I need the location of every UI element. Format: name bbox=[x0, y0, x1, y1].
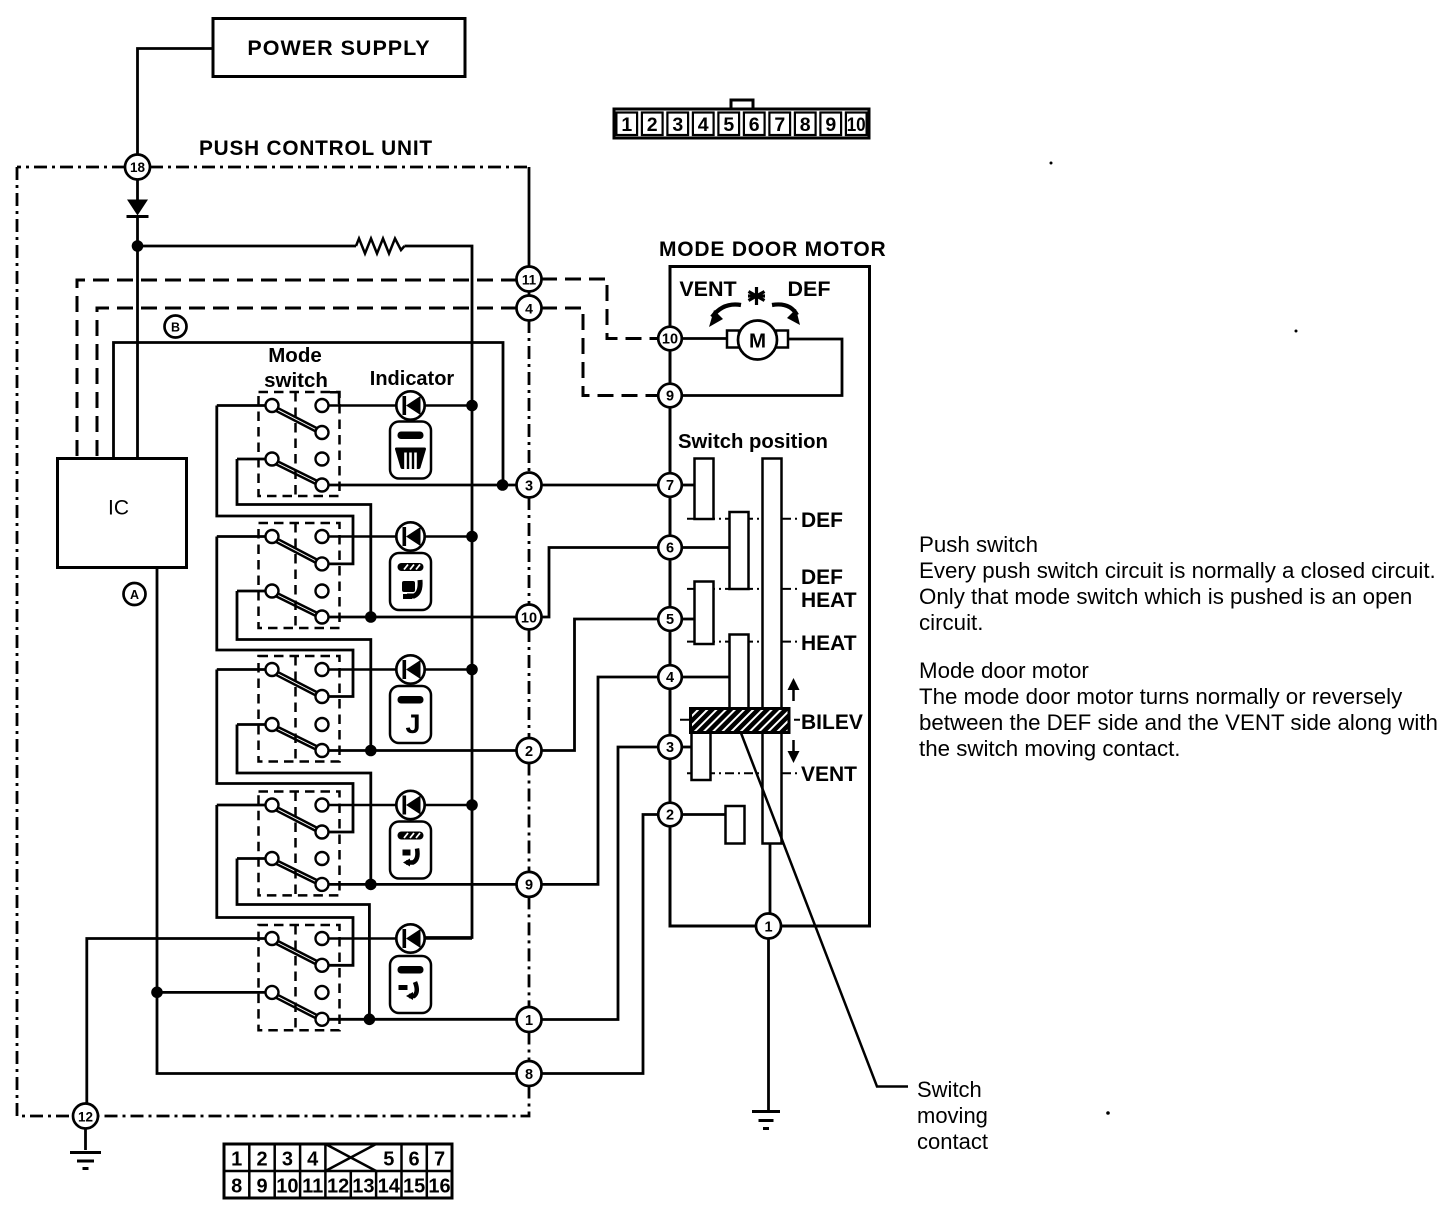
speck bbox=[1106, 1111, 1110, 1115]
svg-text:4: 4 bbox=[307, 1149, 319, 1171]
svg-text:DEF: DEF bbox=[788, 277, 831, 301]
wire: S4 output to connector bbox=[329, 883, 518, 886]
wire: pin1 to motor pin3 bbox=[541, 747, 658, 1020]
svg-text:Switch: Switch bbox=[917, 1077, 982, 1102]
svg-text:MODE DOOR MOTOR: MODE DOOR MOTOR bbox=[659, 238, 886, 261]
svg-text:1: 1 bbox=[621, 114, 632, 136]
resistor R1 bbox=[356, 239, 405, 254]
contact bar pin6 bbox=[730, 512, 749, 589]
wire: S2 lower pole left lead bbox=[237, 590, 266, 593]
svg-text:6: 6 bbox=[409, 1149, 420, 1171]
svg-text:Indicator: Indicator bbox=[370, 368, 455, 390]
wire: S3 fixed contact to LED3 bbox=[329, 668, 397, 671]
S4 lower pole contacts and arm bbox=[266, 852, 329, 891]
motor pin 7 bbox=[658, 473, 682, 497]
svg-text:A: A bbox=[130, 588, 139, 602]
svg-text:IC: IC bbox=[108, 497, 129, 520]
wire: LED5 to supply rail bbox=[425, 937, 472, 940]
wire: S5 lower left lead to IC net bbox=[157, 991, 237, 994]
wire: pin10 to motor bbox=[682, 337, 728, 340]
svg-text:PUSH CONTROL UNIT: PUSH CONTROL UNIT bbox=[199, 137, 433, 160]
connector pin 4 bbox=[517, 296, 542, 321]
S2 inner divider bbox=[294, 523, 297, 628]
mode switch S4 (BILEV) dashed enclosure bbox=[259, 792, 340, 896]
wire: power supply to pin 18 bbox=[138, 49, 214, 156]
svg-text:1: 1 bbox=[764, 920, 772, 936]
svg-text:9: 9 bbox=[256, 1176, 267, 1198]
svg-text:16: 16 bbox=[428, 1176, 450, 1198]
svg-text:HEAT: HEAT bbox=[801, 589, 857, 612]
junction: chain tap on pin wire bbox=[364, 1014, 376, 1026]
motor pin 9 bbox=[658, 384, 682, 408]
speck bbox=[1050, 162, 1053, 165]
svg-text:18: 18 bbox=[130, 160, 146, 175]
position marker VENT bbox=[687, 772, 800, 774]
svg-text:4: 4 bbox=[666, 670, 674, 686]
svg-text:6: 6 bbox=[749, 114, 760, 136]
LED D5 (indicator lamp) bbox=[396, 924, 424, 952]
svg-text:7: 7 bbox=[666, 478, 674, 494]
indicator icon frame 5 bbox=[390, 956, 431, 1013]
bilev glyph bbox=[403, 849, 418, 867]
indicator icon frame 2 bbox=[390, 553, 431, 610]
connector pin 2 bbox=[517, 738, 542, 763]
moving contact rail bbox=[763, 459, 782, 844]
arrow arc left (to VENT) bbox=[709, 305, 741, 328]
wire: dash-dot from pin 18 to left edge bbox=[17, 166, 125, 169]
LED D2 (indicator lamp) bbox=[396, 522, 424, 550]
svg-text:3: 3 bbox=[666, 740, 674, 756]
svg-text:4: 4 bbox=[698, 114, 709, 136]
wire: S3 upper pole left lead bbox=[217, 668, 266, 671]
svg-text:15: 15 bbox=[403, 1176, 425, 1198]
svg-text:3: 3 bbox=[525, 478, 533, 494]
svg-text:5: 5 bbox=[383, 1149, 394, 1171]
mode door motor enclosure bbox=[670, 267, 870, 927]
svg-text:5: 5 bbox=[723, 114, 734, 136]
wire: IC output to pin3 net (top route) bbox=[114, 343, 504, 486]
svg-text:POWER SUPPLY: POWER SUPPLY bbox=[247, 36, 430, 60]
connector pin 12 bbox=[73, 1104, 98, 1129]
wire: indicator chain S1 to S2 arm bbox=[217, 406, 353, 564]
IC U1 bbox=[58, 459, 187, 568]
connector pin 10 bbox=[517, 605, 542, 630]
wire stubs motor pins to contact bars bbox=[682, 484, 696, 487]
junction: pin3 net / IC route bbox=[497, 479, 509, 491]
vent glyph bbox=[399, 982, 417, 1000]
wire: switch chain S2 to S3 output node bbox=[237, 591, 371, 751]
wire: dashed net pin11 to IC bbox=[77, 280, 517, 459]
wire: S3 lower pole left lead bbox=[237, 723, 266, 726]
indicator icon frame 4 bbox=[390, 822, 431, 879]
svg-text:The mode door motor turns norm: The mode door motor turns normally or re… bbox=[919, 684, 1403, 709]
svg-text:VENT: VENT bbox=[679, 277, 736, 301]
wire: pin 11 to pin 4 stub bbox=[528, 291, 531, 296]
star symbol bbox=[748, 287, 765, 305]
wire: dashed net pin4 to IC bbox=[97, 308, 517, 459]
dashed wire pin4 to pin9 bbox=[541, 308, 658, 396]
wire: S1 lower pole left lead bbox=[237, 458, 266, 461]
connector block (16-pin) bbox=[224, 1144, 452, 1198]
indicator bar 1 bbox=[398, 432, 424, 440]
wire: LED3 to supply rail bbox=[425, 668, 472, 671]
wire: rail to pin1 bbox=[769, 844, 772, 915]
svg-text:2: 2 bbox=[647, 114, 658, 136]
wire: IC to pin 8 bbox=[157, 568, 517, 1074]
wire: S3 output to connector bbox=[329, 749, 518, 752]
arrow down bbox=[788, 740, 800, 763]
svg-text:8: 8 bbox=[231, 1176, 242, 1198]
junction: chain tap on pin wire bbox=[365, 745, 377, 757]
wire: LED4 to supply rail bbox=[425, 804, 472, 807]
svg-text:8: 8 bbox=[800, 114, 811, 136]
wire: LED1 to supply rail bbox=[425, 404, 472, 407]
LED D1 (indicator lamp) bbox=[396, 391, 424, 419]
junction: diode output node bbox=[132, 240, 144, 252]
wire: switch chain S4 to S5 output node bbox=[237, 859, 369, 1020]
svg-text:3: 3 bbox=[282, 1149, 293, 1171]
wire: S1 fixed contact to LED1 bbox=[329, 404, 397, 407]
mode switch S2 (DEF-HEAT) dashed enclosure bbox=[259, 523, 340, 628]
arrow up bbox=[788, 678, 800, 701]
connector pin 18 bbox=[125, 155, 150, 180]
connector pin 1 bbox=[517, 1007, 542, 1032]
ground (left) bbox=[70, 1153, 101, 1169]
S1 upper pole contacts and arm bbox=[266, 399, 329, 439]
wire: S1 output to connector bbox=[329, 484, 518, 487]
svg-text:DEF: DEF bbox=[801, 509, 843, 532]
S1 inner divider bbox=[294, 392, 297, 496]
junction: chain tap on pin wire bbox=[365, 879, 377, 891]
svg-text:Every push switch circuit is n: Every push switch circuit is normally a … bbox=[919, 558, 1436, 583]
svg-text:Only that mode switch which is: Only that mode switch which is pushed is… bbox=[919, 584, 1412, 609]
svg-text:contact: contact bbox=[917, 1129, 988, 1154]
arrow arc right (to DEF) bbox=[772, 304, 800, 325]
svg-text:Mode: Mode bbox=[268, 344, 322, 367]
wire: dash-dot from pin 18 right to bus top bbox=[150, 166, 529, 169]
wire: node to resistor bbox=[138, 245, 357, 248]
wire: pin8 to motor pin2 bbox=[541, 815, 658, 1074]
svg-text:14: 14 bbox=[378, 1176, 401, 1198]
wire: S2 output to connector bbox=[329, 616, 518, 619]
svg-text:10: 10 bbox=[521, 610, 537, 626]
motor M bbox=[738, 321, 777, 360]
svg-text:13: 13 bbox=[352, 1176, 374, 1198]
wire: S5 output to connector bbox=[329, 1018, 518, 1021]
svg-text:9: 9 bbox=[666, 389, 674, 405]
contact bar pin3 bbox=[692, 732, 711, 781]
position marker DEF-HEAT bbox=[687, 588, 800, 590]
svg-text:J: J bbox=[405, 709, 420, 739]
svg-text:1: 1 bbox=[525, 1013, 533, 1029]
note: push switch bbox=[919, 532, 1438, 761]
svg-text:3: 3 bbox=[672, 114, 683, 136]
svg-text:switch: switch bbox=[264, 369, 328, 392]
S1 lower pole contacts and arm bbox=[266, 453, 329, 492]
indicator striped bar 4 bbox=[398, 832, 424, 840]
svg-text:1: 1 bbox=[231, 1149, 242, 1171]
junction: chain tap on pin wire bbox=[365, 611, 377, 623]
wire: S5 lower pole left lead bbox=[237, 991, 266, 994]
junction: mode switch 5 common node bbox=[151, 987, 163, 999]
position marker BILEV bbox=[680, 719, 800, 721]
svg-text:Switch position: Switch position bbox=[678, 431, 828, 453]
ground (motor) bbox=[752, 1112, 780, 1129]
motor pin 10 bbox=[658, 327, 682, 351]
wire: pin 12 to ground bbox=[84, 1129, 87, 1151]
wire: pin2 to motor pin5 bbox=[541, 619, 658, 751]
wire: switch chain S3 to S4 output node bbox=[237, 725, 371, 885]
junction: LED3 rail tap bbox=[466, 664, 478, 676]
svg-text:2: 2 bbox=[666, 808, 674, 824]
def-heat glyph bbox=[402, 580, 420, 599]
bus dash-dot vertical bbox=[528, 320, 531, 473]
wire stub S1 top corner bbox=[330, 392, 339, 404]
indicator bar 3 bbox=[398, 696, 424, 704]
svg-text:10: 10 bbox=[847, 114, 866, 136]
dashed wire pin11 to pin10 bbox=[541, 279, 658, 339]
motor pin 4 bbox=[658, 665, 682, 689]
LED D4 (indicator lamp) bbox=[396, 791, 424, 819]
S5 inner divider bbox=[294, 925, 297, 1030]
mode switch S5 (VENT) dashed enclosure bbox=[259, 925, 340, 1030]
svg-text:between the DEF side and the V: between the DEF side and the VENT side a… bbox=[919, 710, 1438, 735]
svg-text:10: 10 bbox=[662, 332, 678, 348]
mode switch S3 (HEAT) dashed enclosure bbox=[259, 656, 340, 762]
svg-text:8: 8 bbox=[525, 1067, 533, 1083]
contact bar pin5 bbox=[695, 582, 714, 645]
wire: S5 fixed contact to LED5 bbox=[329, 937, 397, 940]
connector block (10-pin) bbox=[614, 100, 869, 138]
wire: pin9 to motor pin4 bbox=[541, 677, 658, 884]
wire: dash-dot left vertical down to pin 12 row bbox=[17, 167, 73, 1116]
svg-text:BILEV: BILEV bbox=[801, 711, 863, 734]
svg-text:moving: moving bbox=[917, 1103, 988, 1128]
connector pin 8 bbox=[517, 1061, 542, 1086]
svg-text:4: 4 bbox=[525, 301, 533, 317]
indicator bar 5 bbox=[398, 966, 424, 974]
indicator icon frame 1 bbox=[390, 422, 431, 479]
junction: LED1 rail tap bbox=[466, 400, 478, 412]
power supply box bbox=[213, 19, 465, 77]
svg-text:2: 2 bbox=[256, 1149, 267, 1171]
label B bbox=[165, 316, 187, 338]
wire: indicator chain S3 to S4 arm bbox=[217, 670, 353, 833]
svg-text:7: 7 bbox=[774, 114, 785, 136]
svg-text:HEAT: HEAT bbox=[801, 632, 857, 655]
S4 inner divider bbox=[294, 792, 297, 896]
wire: S1 upper pole left lead bbox=[217, 404, 266, 407]
wire: pin3 to motor pin7 bbox=[541, 484, 658, 487]
svg-text:Mode door motor: Mode door motor bbox=[919, 658, 1089, 683]
wire: S5 upper pole lead to pin 12 bbox=[87, 939, 266, 1105]
speck bbox=[1295, 330, 1298, 333]
svg-text:2: 2 bbox=[525, 744, 533, 760]
wire: bus vertical solid to pin 11 bbox=[528, 167, 531, 267]
diode D1 bbox=[127, 180, 149, 247]
contact bar pin4 bbox=[730, 635, 749, 713]
svg-text:12: 12 bbox=[327, 1176, 349, 1198]
connector pin 9 bbox=[517, 872, 542, 897]
svg-text:7: 7 bbox=[434, 1149, 445, 1171]
S4 upper pole contacts and arm bbox=[266, 799, 329, 839]
svg-text:9: 9 bbox=[525, 878, 533, 894]
svg-text:11: 11 bbox=[522, 273, 537, 288]
svg-text:9: 9 bbox=[825, 114, 836, 136]
position marker DEF bbox=[687, 518, 800, 520]
connector pin 3 bbox=[517, 473, 542, 498]
LED D3 (indicator lamp) bbox=[396, 655, 424, 683]
junction: LED2 rail tap bbox=[466, 531, 478, 543]
svg-text:12: 12 bbox=[78, 1110, 93, 1125]
wire: pin10 to motor pin6 bbox=[541, 548, 658, 618]
contact bar pin2 bbox=[726, 806, 745, 844]
motor pin 3 bbox=[658, 735, 682, 759]
wire: switch chain S1 to S2 output node bbox=[237, 459, 371, 617]
svg-text:VENT: VENT bbox=[801, 763, 857, 786]
wire: LED2 to supply rail bbox=[425, 535, 472, 538]
motor pin 2 bbox=[658, 803, 682, 827]
wire: S4 lower pole left lead bbox=[237, 857, 266, 860]
wire: motor to pin9 loop bbox=[682, 339, 842, 396]
wire: S2 upper pole left lead bbox=[217, 535, 266, 538]
motor pin 5 bbox=[658, 607, 682, 631]
mode switch S1 (DEF) dashed enclosure bbox=[259, 392, 340, 496]
S5 upper pole contacts and arm bbox=[266, 932, 329, 972]
svg-text:B: B bbox=[171, 321, 180, 335]
label A bbox=[124, 583, 146, 605]
svg-text:6: 6 bbox=[666, 541, 674, 557]
svg-text:the switch moving contact.: the switch moving contact. bbox=[919, 736, 1181, 761]
motor pin 6 bbox=[658, 536, 682, 560]
wire: S2 fixed contact to LED2 bbox=[329, 535, 397, 538]
svg-text:DEF: DEF bbox=[801, 566, 843, 589]
wire: indicator chain S4 to S5 arm bbox=[217, 805, 353, 965]
pointer: switch moving contact callout bbox=[741, 733, 908, 1087]
defrost glyph bbox=[397, 449, 425, 470]
svg-text:circuit.: circuit. bbox=[919, 610, 983, 635]
S2 upper pole contacts and arm bbox=[266, 530, 329, 570]
wire: pin1 to ground bbox=[767, 939, 770, 1111]
S5 lower pole contacts and arm bbox=[266, 986, 329, 1026]
wire: S4 upper pole left lead bbox=[217, 804, 266, 807]
S3 lower pole contacts and arm bbox=[266, 718, 329, 757]
indicator striped bar 2 bbox=[398, 563, 424, 571]
motor M terminals bbox=[727, 331, 739, 348]
svg-text:11: 11 bbox=[302, 1176, 323, 1198]
wire: power rail into IC bbox=[136, 246, 139, 459]
svg-text:10: 10 bbox=[276, 1176, 298, 1198]
position marker HEAT bbox=[687, 641, 800, 643]
S3 upper pole contacts and arm bbox=[266, 663, 329, 703]
wire: indicator chain S2 to S3 arm bbox=[217, 537, 353, 697]
S3 inner divider bbox=[294, 656, 297, 762]
contact bar pin7 bbox=[695, 459, 714, 520]
svg-text:Push switch: Push switch bbox=[919, 532, 1038, 557]
wire: S4 fixed contact to LED4 bbox=[329, 804, 397, 807]
connector pin 11 bbox=[517, 267, 542, 292]
connector pin 1 (motor) bbox=[756, 914, 781, 939]
wire: resistor to LED supply rail bbox=[405, 246, 473, 938]
S2 lower pole contacts and arm bbox=[266, 585, 329, 624]
indicator icon frame 3 bbox=[390, 686, 431, 743]
junction: LED4 rail tap bbox=[466, 799, 478, 811]
svg-text:5: 5 bbox=[666, 612, 674, 628]
svg-text:M: M bbox=[749, 330, 766, 353]
